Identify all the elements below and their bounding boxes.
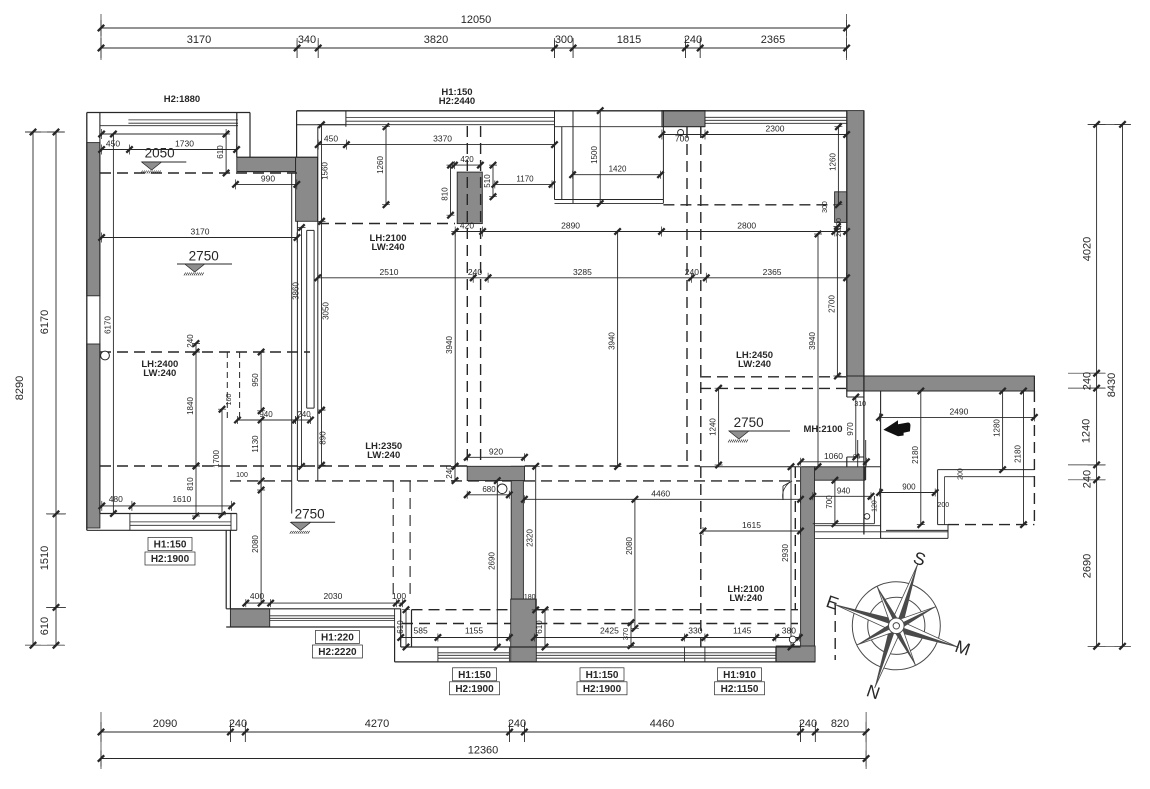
dimension dim 970	[846, 394, 860, 460]
svg-text:50: 50	[853, 454, 861, 461]
dimension dim 2300	[659, 124, 850, 144]
wall top band step left	[296, 111, 298, 157]
dimension dim 240 balcony	[186, 334, 200, 355]
dimension dim 990	[232, 173, 300, 189]
dimension dim 400 2030 100	[243, 591, 407, 607]
dimension dim 240 gray L	[445, 463, 459, 484]
wall fill entry arm	[802, 467, 865, 480]
boxed label H1:910 H2:1150 (window br)	[715, 668, 765, 695]
dimension dim 2690 bl	[487, 477, 501, 650]
sliding door leaf	[307, 230, 314, 408]
extension lines top border	[101, 14, 847, 60]
dimension left segments	[39, 129, 65, 649]
right room top solid	[700, 466, 881, 468]
wall fill balcony top-right horizontal	[237, 157, 296, 171]
svg-text:240: 240	[799, 718, 817, 730]
dashed terrace bottom	[948, 524, 1034, 526]
svg-text:240: 240	[297, 410, 311, 419]
svg-text:120: 120	[871, 500, 878, 512]
svg-text:1155: 1155	[465, 626, 484, 636]
wall fill interior pier	[457, 172, 482, 224]
dimension bottom total 12360	[98, 745, 870, 767]
svg-text:H2:1900: H2:1900	[455, 684, 494, 695]
svg-text:3860: 3860	[292, 282, 301, 300]
svg-text:1260: 1260	[828, 153, 837, 171]
dashed ceiling line top right room	[663, 204, 834, 206]
terrace left edge	[880, 391, 882, 538]
window lines top-right	[705, 117, 847, 123]
svg-text:890: 890	[319, 431, 328, 445]
svg-text:3820: 3820	[424, 34, 448, 46]
svg-text:585: 585	[414, 626, 428, 636]
niche sill lines	[815, 532, 948, 539]
svg-text:H1:150: H1:150	[458, 670, 491, 681]
svg-text:2180: 2180	[1014, 445, 1023, 463]
wall inner face top band	[555, 117, 706, 126]
svg-text:240: 240	[1082, 470, 1094, 488]
svg-text:240: 240	[684, 34, 702, 46]
dashed vertical right room	[794, 467, 796, 610]
svg-text:940: 940	[259, 410, 273, 419]
dimension dim 610 bl	[396, 607, 410, 651]
dimension dim 940 niche	[810, 486, 875, 500]
svg-text:240: 240	[508, 718, 526, 730]
svg-text:240: 240	[1082, 372, 1094, 390]
wall fill top gray pier	[662, 111, 705, 127]
svg-text:MH:2100: MH:2100	[803, 424, 842, 435]
svg-text:2690: 2690	[487, 552, 496, 570]
niche bottom	[813, 524, 881, 526]
svg-text:1730: 1730	[175, 139, 194, 149]
niche right edge	[873, 496, 875, 524]
svg-text:12360: 12360	[468, 745, 499, 757]
svg-text:240: 240	[468, 267, 482, 277]
dimension dim 3050	[318, 218, 331, 413]
svg-text:H2:2440: H2:2440	[439, 96, 475, 107]
wall fill mid pier upper	[511, 466, 523, 599]
dashed vertical below right room	[834, 604, 836, 660]
dimension dim 1260 right	[828, 124, 842, 208]
svg-text:6170: 6170	[39, 310, 51, 334]
wall line balcony left inner	[99, 113, 101, 514]
wall fill balcony top-right vertical	[296, 157, 318, 221]
dimension dim 2080 bl	[251, 478, 265, 607]
svg-text:310: 310	[854, 401, 866, 408]
window caps bottom-left	[394, 609, 396, 627]
elevation marker 2750 (hall)	[728, 415, 790, 442]
svg-text:2690: 2690	[1082, 554, 1094, 578]
svg-text:H1:150: H1:150	[586, 670, 619, 681]
svg-text:2750: 2750	[295, 507, 325, 522]
svg-text:1500: 1500	[590, 146, 599, 164]
dimension dim 1130	[251, 417, 265, 493]
entry arrow	[883, 420, 910, 436]
dashed ceiling line bottom b	[402, 623, 798, 625]
elevation marker 2750 (balcony lower)	[177, 249, 232, 276]
drain circle bottom	[789, 636, 796, 643]
svg-text:400: 400	[250, 591, 264, 601]
extension lines right border	[1068, 124, 1131, 646]
dimension dim bottom row	[398, 626, 513, 642]
wall fill right room side wall	[801, 467, 815, 647]
dimension dim 1260 left	[376, 124, 390, 208]
svg-text:2320: 2320	[526, 529, 535, 547]
dimension top segments	[98, 34, 850, 58]
svg-text:180: 180	[524, 594, 536, 601]
svg-text:920: 920	[489, 446, 503, 456]
svg-text:380: 380	[782, 626, 796, 636]
dimension bottom segments	[98, 718, 870, 742]
dimension dim 1280	[993, 388, 1007, 473]
svg-text:2510: 2510	[380, 267, 399, 277]
svg-text:240: 240	[186, 334, 195, 348]
svg-text:1840: 1840	[186, 397, 195, 415]
svg-text:12050: 12050	[461, 14, 492, 26]
svg-text:LW:240: LW:240	[729, 593, 762, 604]
dimension dim 3940 mid	[608, 228, 622, 469]
small circle entry	[864, 514, 870, 520]
svg-text:3370: 3370	[433, 134, 452, 144]
door swing right room	[783, 481, 792, 500]
svg-text:820: 820	[831, 718, 849, 730]
wall bottom-left room bottom	[226, 609, 401, 627]
svg-text:4270: 4270	[365, 718, 389, 730]
dimension dim 3170 balcony	[98, 227, 300, 243]
window caps balcony bottom	[130, 514, 237, 531]
svg-text:610: 610	[216, 145, 225, 159]
svg-text:2750: 2750	[189, 249, 219, 264]
wall bottom band faces	[395, 647, 815, 662]
svg-text:940: 940	[837, 486, 851, 495]
svg-text:340: 340	[298, 34, 316, 46]
boxed label H1:150 H2:1900 (window left)	[145, 538, 195, 566]
svg-text:810: 810	[186, 477, 195, 491]
svg-text:H2:1900: H2:1900	[583, 684, 622, 695]
svg-text:4460: 4460	[651, 488, 670, 498]
svg-text:950: 950	[251, 373, 260, 387]
window lines balcony top	[100, 120, 238, 126]
dimension top total 12050	[98, 14, 850, 36]
wall top band outer	[297, 110, 847, 112]
wall top solid chunk	[297, 111, 346, 127]
wall line between balcony and middle room	[291, 173, 293, 514]
svg-text:1610: 1610	[172, 494, 191, 504]
dashed verticals bottom-left room	[393, 481, 410, 598]
wall line x297	[296, 221, 298, 481]
wall line x318	[317, 127, 319, 481]
wall fill mid pier lower	[511, 599, 537, 662]
svg-text:2365: 2365	[761, 34, 785, 46]
svg-text:1510: 1510	[39, 546, 51, 570]
svg-text:2800: 2800	[737, 221, 756, 231]
dimension left total 8290	[14, 129, 41, 649]
svg-text:3940: 3940	[808, 332, 817, 350]
svg-text:8290: 8290	[14, 376, 26, 400]
dimension dim 2490	[876, 406, 1037, 421]
dimension dim 370	[621, 620, 634, 649]
svg-text:1815: 1815	[617, 34, 641, 46]
dimension dim 420 pier	[451, 155, 483, 169]
terrace curb	[945, 477, 1035, 525]
svg-text:370: 370	[621, 628, 630, 641]
svg-text:2365: 2365	[763, 267, 782, 277]
dimension dim 240b balcony	[292, 410, 313, 424]
dimension dim 700 niche	[825, 477, 839, 527]
dimension dim 2700	[827, 223, 841, 379]
dimension dim 810 pier	[441, 162, 455, 219]
svg-text:2930: 2930	[781, 544, 790, 562]
wall circle left	[101, 351, 110, 360]
boxed label H1:150 H2:1900 (window bm1)	[450, 668, 500, 695]
wall line balcony left outer	[86, 113, 88, 531]
svg-text:1700: 1700	[212, 450, 221, 468]
dimension dim 1420	[569, 165, 663, 179]
svg-text:H2:2220: H2:2220	[318, 647, 357, 658]
svg-text:970: 970	[846, 422, 855, 436]
svg-text:610: 610	[396, 620, 405, 634]
svg-text:1615: 1615	[742, 520, 761, 530]
compass rose	[824, 547, 973, 703]
window caps bottom band	[438, 647, 776, 662]
terrace bottom edge	[881, 525, 948, 539]
window lines middle room top	[318, 118, 555, 125]
dashed vertical strip right	[687, 127, 701, 647]
svg-text:H2:1880: H2:1880	[164, 94, 200, 105]
svg-text:2300: 2300	[766, 124, 785, 134]
boxed label H1:150 H2:1900 (window bm2)	[577, 668, 627, 695]
svg-text:240: 240	[229, 718, 247, 730]
wall fill mid L horizontal	[467, 466, 524, 480]
wall fill right wall bump	[835, 192, 847, 223]
dimension dim 1240 hall	[709, 385, 723, 468]
svg-text:4460: 4460	[650, 718, 674, 730]
extension lines bottom border	[101, 712, 866, 769]
dimension dim 1700	[212, 406, 226, 518]
svg-text:1420: 1420	[609, 165, 627, 174]
dimension dim 3940 left	[445, 228, 459, 469]
dimension dim 1560	[318, 122, 330, 225]
svg-text:LW:240: LW:240	[143, 368, 176, 379]
dimension dim 4460 room	[521, 488, 804, 503]
dimension dim 1840	[186, 349, 200, 469]
dimension dim 3860	[292, 224, 306, 469]
dashed ceiling line balcony mid	[100, 351, 310, 353]
svg-text:1280: 1280	[993, 419, 1002, 437]
svg-text:2080: 2080	[625, 537, 634, 555]
svg-text:3050: 3050	[322, 302, 331, 320]
dashed verticals balcony lower	[227, 352, 239, 420]
svg-text:H1:150: H1:150	[154, 540, 187, 551]
dashed ceiling line right box top	[700, 376, 846, 378]
dimension dim 2930	[781, 464, 795, 651]
svg-text:LW:240: LW:240	[371, 242, 404, 253]
wall step bottom	[395, 609, 412, 662]
dimension dim 900	[876, 483, 938, 497]
dimension dim 610 balcony	[216, 131, 230, 176]
dimension dim 1060	[798, 451, 870, 466]
wall outline balcony top	[87, 112, 250, 114]
dimension dim 610 bm	[535, 607, 549, 651]
terrace inner corner	[938, 470, 1035, 525]
dimension dim 920	[464, 446, 528, 461]
svg-text:200: 200	[957, 468, 964, 480]
wall fill bottom-left pier	[230, 609, 269, 627]
svg-text:1130: 1130	[251, 435, 260, 453]
dimension dim 480 1610	[99, 494, 235, 511]
wall right outer	[863, 111, 865, 535]
svg-text:1560: 1560	[321, 162, 330, 180]
dimension dim 6170 balcony	[103, 131, 117, 517]
dashed ceiling line right box bottom	[700, 387, 846, 389]
svg-text:450: 450	[324, 134, 338, 144]
svg-text:3940: 3940	[608, 332, 617, 350]
elevation marker 2050 (balcony upper)	[141, 146, 187, 174]
dimension dim 950	[251, 349, 265, 414]
svg-text:2700: 2700	[827, 295, 836, 313]
window lines bottom band 1	[438, 653, 510, 658]
svg-text:2050: 2050	[145, 146, 175, 161]
svg-text:LW:240: LW:240	[738, 359, 771, 370]
dimension dim 1500	[590, 107, 604, 206]
window lines bottom-left room	[270, 616, 395, 621]
svg-text:610: 610	[535, 620, 544, 634]
svg-text:1170: 1170	[516, 174, 534, 183]
dimension dim 940 balcony	[234, 410, 298, 424]
svg-text:3285: 3285	[573, 267, 592, 277]
svg-text:480: 480	[109, 494, 123, 504]
svg-text:H1:220: H1:220	[321, 633, 354, 644]
svg-text:680: 680	[482, 485, 496, 494]
svg-text:700: 700	[825, 495, 834, 509]
svg-text:1260: 1260	[376, 156, 385, 174]
svg-text:990: 990	[261, 173, 275, 183]
svg-text:2425: 2425	[600, 626, 619, 636]
svg-text:2090: 2090	[153, 718, 177, 730]
svg-text:2030: 2030	[323, 591, 342, 601]
boxed label H1:220 H2:2220 (window bl)	[312, 631, 362, 659]
dimension dim row 420 2890 2800	[452, 221, 850, 237]
dimension dim 2320	[526, 463, 540, 613]
svg-text:610: 610	[39, 617, 51, 635]
dashed ceiling line main lower	[230, 480, 800, 482]
dimension dim 1170	[492, 174, 556, 188]
window lines balcony bottom	[130, 522, 231, 525]
wall bottom-left room left	[226, 530, 230, 609]
svg-text:240: 240	[445, 465, 454, 479]
svg-text:810: 810	[441, 187, 450, 201]
elevation marker 2750 (bottom-left room)	[290, 507, 335, 534]
wall step balcony top-right	[237, 113, 250, 158]
dimension dim 450 3370	[315, 134, 558, 150]
svg-text:3170: 3170	[187, 34, 211, 46]
right band edges	[847, 376, 1035, 391]
svg-text:330: 330	[688, 626, 702, 636]
svg-text:H2:1150: H2:1150	[721, 684, 759, 695]
svg-text:1060: 1060	[824, 451, 843, 461]
door swing arc	[783, 481, 792, 500]
svg-text:6170: 6170	[103, 316, 112, 334]
dimension dim 890	[318, 407, 328, 469]
dimension dim 510	[483, 162, 497, 200]
dimension right total 8430	[1106, 121, 1131, 649]
drain circle mid	[497, 484, 507, 494]
dimension dim 450 1730	[98, 139, 239, 155]
wall right inner segs	[846, 111, 848, 467]
wall edge gray top	[237, 156, 318, 158]
dimension right segments	[1081, 121, 1106, 649]
svg-text:1145: 1145	[733, 626, 752, 636]
svg-text:160: 160	[226, 394, 233, 406]
dimension dim 680	[464, 485, 513, 499]
extension lines left border	[25, 132, 66, 645]
wall fill bottom right pier	[776, 646, 815, 662]
svg-text:510: 510	[483, 174, 492, 188]
dimension dim row 2510..2365	[315, 267, 850, 283]
svg-text:1240: 1240	[709, 418, 718, 436]
svg-text:H1:910: H1:910	[723, 670, 756, 681]
bay window bottom	[555, 200, 664, 204]
dimension dim 3940 right	[808, 231, 822, 470]
svg-text:3940: 3940	[445, 336, 454, 354]
svg-text:300: 300	[555, 34, 573, 46]
dimension dim 2180 left	[911, 388, 925, 528]
svg-text:420: 420	[460, 155, 474, 164]
svg-text:8430: 8430	[1106, 373, 1118, 397]
dimension dim bottom row2	[531, 626, 802, 642]
svg-text:1240: 1240	[1081, 419, 1093, 443]
dimension dim 2080 bm	[625, 496, 639, 631]
dashed ceiling line mid rooms	[318, 223, 455, 225]
wall fill right top band	[847, 376, 1035, 391]
svg-text:100: 100	[392, 591, 406, 601]
svg-text:2180: 2180	[911, 446, 920, 464]
wall fill left lower	[87, 344, 100, 528]
svg-text:420: 420	[460, 221, 474, 231]
dashed vertical strip left	[467, 126, 480, 466]
wall balcony bottom	[87, 514, 237, 531]
dimension dim 2180 right	[1014, 388, 1028, 528]
svg-text:2750: 2750	[734, 415, 764, 430]
svg-text:300: 300	[822, 201, 829, 213]
dashed ceiling line main upper	[100, 465, 700, 467]
svg-text:3170: 3170	[191, 227, 210, 237]
dimension dim 810 balcony	[186, 463, 200, 519]
dashed ceiling line balcony upper	[100, 172, 297, 174]
svg-text:2490: 2490	[949, 406, 968, 416]
dimension ref line balcony top	[98, 129, 229, 139]
svg-text:2890: 2890	[561, 221, 580, 231]
small circle top	[678, 130, 684, 136]
svg-text:100: 100	[236, 472, 248, 479]
dashed ceiling line bottom a	[412, 609, 799, 611]
bay window walls	[555, 111, 664, 204]
svg-text:200: 200	[937, 502, 949, 509]
dimension dim 1615	[700, 520, 804, 535]
dashed vertical terrace right edge	[1033, 391, 1035, 525]
wall fill right wall upper	[847, 111, 864, 376]
svg-text:4020: 4020	[1082, 237, 1094, 261]
window lines bottom band 2	[536, 653, 776, 658]
svg-text:900: 900	[902, 483, 916, 492]
svg-text:H2:1900: H2:1900	[151, 554, 190, 565]
svg-text:LW:240: LW:240	[367, 450, 400, 461]
wall fill left upper	[87, 143, 100, 296]
wall edge below gray	[237, 171, 296, 173]
entry door jambs	[847, 397, 866, 480]
svg-text:2080: 2080	[251, 535, 260, 553]
svg-text:240: 240	[685, 267, 699, 277]
